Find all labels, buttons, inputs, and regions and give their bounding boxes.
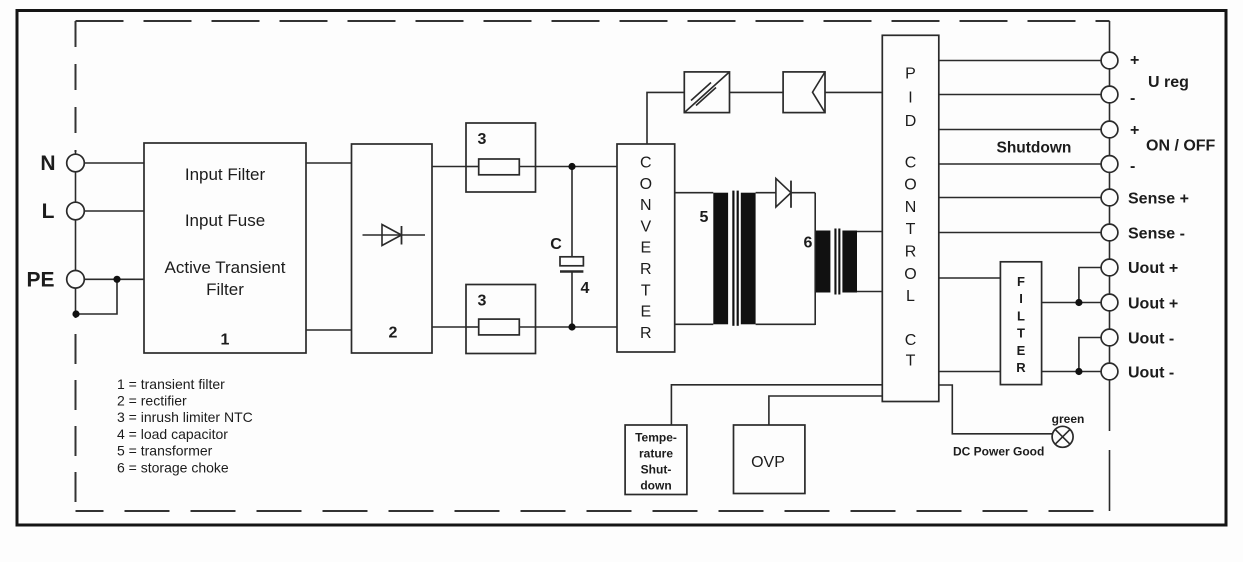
wire converter to transformer top xyxy=(675,192,714,194)
svg-text:6: 6 xyxy=(804,235,813,252)
svg-text:R: R xyxy=(1016,360,1026,375)
svg-text:C: C xyxy=(550,236,562,253)
wire secondary bottom to node line xyxy=(756,323,816,325)
wire PID to Ureg+ terminal xyxy=(939,60,1101,62)
svg-text:N: N xyxy=(40,152,55,175)
terminal PE xyxy=(67,271,85,289)
svg-text:Uout +: Uout + xyxy=(1128,260,1178,277)
OVP block xyxy=(734,425,805,494)
svg-text:Input Fuse: Input Fuse xyxy=(185,211,265,230)
PID control block xyxy=(882,35,939,401)
svg-text:O: O xyxy=(904,266,916,283)
storage choke 6 winding B xyxy=(842,231,857,293)
svg-text:-: - xyxy=(1130,158,1135,175)
svg-text:-: - xyxy=(1130,90,1135,107)
isolation coupler box xyxy=(684,72,729,113)
terminal N xyxy=(67,154,85,172)
wire diode to node line xyxy=(791,192,815,194)
wire PID to filter top xyxy=(939,277,1001,279)
terminal Uout+ lower xyxy=(1101,294,1118,311)
svg-text:N: N xyxy=(905,199,917,216)
wire input filter to rectifier bottom xyxy=(306,329,352,331)
svg-text:5: 5 xyxy=(700,209,709,226)
resistor bottom xyxy=(466,326,479,328)
dashed enclosure top xyxy=(76,20,1110,22)
svg-text:+: + xyxy=(1130,122,1139,139)
svg-text:3 = inrush limiter NTC: 3 = inrush limiter NTC xyxy=(117,409,253,425)
svg-text:OVP: OVP xyxy=(751,454,785,471)
svg-text:rature: rature xyxy=(639,447,673,461)
input filter block U1 xyxy=(144,143,306,353)
svg-text:L: L xyxy=(42,200,55,223)
wire temperature shutdown to PID xyxy=(671,385,882,425)
amplifier box xyxy=(783,72,825,113)
svg-text:Filter: Filter xyxy=(206,280,244,299)
svg-text:E: E xyxy=(640,240,651,257)
svg-text:O: O xyxy=(640,176,652,193)
svg-text:Sense -: Sense - xyxy=(1128,226,1185,243)
transformer core xyxy=(732,191,734,326)
wire junction up to Uout- top xyxy=(1079,338,1101,372)
PE loop wire xyxy=(76,279,118,314)
wire converter to transformer bottom xyxy=(675,323,714,325)
wire input filter to rectifier top xyxy=(306,162,352,164)
svg-text:6 = storage choke: 6 = storage choke xyxy=(117,459,229,475)
terminal Uout- upper xyxy=(1101,329,1118,346)
node line xyxy=(814,193,816,325)
terminal Uout- lower xyxy=(1101,363,1118,380)
svg-text:C: C xyxy=(905,332,917,349)
wire rectifier to NTC bottom xyxy=(432,326,466,328)
junction PE wire xyxy=(113,276,120,283)
wire filter to Uout+ junction xyxy=(1042,302,1102,304)
svg-text:T: T xyxy=(641,282,651,299)
wire coupler to amp xyxy=(730,91,784,93)
wire PID to filter bottom xyxy=(939,371,1001,373)
svg-text:C: C xyxy=(640,155,652,172)
svg-text:3: 3 xyxy=(478,293,487,310)
svg-text:2 = rectifier: 2 = rectifier xyxy=(117,393,187,409)
svg-text:I: I xyxy=(1019,291,1023,306)
svg-text:N: N xyxy=(640,197,652,214)
wire secondary to diode xyxy=(756,192,776,194)
dashed enclosure bottom xyxy=(76,510,1110,512)
transformer 5 primary winding xyxy=(713,193,728,325)
svg-text:4: 4 xyxy=(581,280,590,297)
svg-text:3: 3 xyxy=(478,131,487,148)
wire rectifier to NTC top xyxy=(432,166,466,168)
svg-text:E: E xyxy=(640,304,651,321)
wire junction up to Uout+ top xyxy=(1079,268,1101,303)
filter block xyxy=(1000,262,1041,385)
svg-text:2: 2 xyxy=(389,325,398,342)
transformer 5 secondary winding xyxy=(741,193,756,325)
wire NTC bottom to converter xyxy=(536,326,618,328)
NTC block 3 bottom xyxy=(466,285,536,354)
svg-text:E: E xyxy=(1017,343,1026,358)
terminal Ureg- xyxy=(1101,86,1118,103)
DC power good wire xyxy=(939,385,1052,434)
wire amp to PID xyxy=(825,91,882,93)
svg-text:L: L xyxy=(906,288,915,305)
junction PE rail xyxy=(72,310,79,317)
svg-text:1 = transient filter: 1 = transient filter xyxy=(117,376,225,392)
junction capacitor bottom xyxy=(568,323,575,330)
svg-text:I: I xyxy=(908,89,912,106)
wire PID to ON/OFF- terminal xyxy=(939,163,1101,165)
terminal Uout+ upper xyxy=(1101,259,1118,276)
storage choke 6 winding A xyxy=(816,231,831,293)
svg-text:Uout -: Uout - xyxy=(1128,331,1174,348)
svg-text:Uout -: Uout - xyxy=(1128,365,1174,382)
converter block xyxy=(617,144,675,352)
dashed enclosure left lower xyxy=(75,314,77,511)
junction capacitor top xyxy=(568,163,575,170)
rectifier block 2 xyxy=(352,144,433,353)
svg-text:PE: PE xyxy=(26,269,54,292)
svg-text:L: L xyxy=(1017,308,1025,323)
terminal Sense+ xyxy=(1101,189,1118,206)
terminal Ureg+ xyxy=(1101,52,1118,69)
svg-text:U reg: U reg xyxy=(1148,74,1189,91)
svg-text:4 = load capacitor: 4 = load capacitor xyxy=(117,426,228,442)
svg-text:V: V xyxy=(640,218,651,235)
output rail solid upper xyxy=(1109,21,1111,431)
junction Uout+ xyxy=(1075,299,1082,306)
output rail solid lower xyxy=(1109,450,1111,511)
choke core xyxy=(834,229,836,295)
wire PID to Sense+ terminal xyxy=(939,197,1101,199)
svg-text:O: O xyxy=(904,177,916,194)
svg-text:Uout +: Uout + xyxy=(1128,296,1178,313)
svg-text:Shutdown: Shutdown xyxy=(997,140,1072,157)
svg-text:+: + xyxy=(1130,52,1139,69)
load capacitor C4 xyxy=(571,167,573,257)
wire N to input filter xyxy=(84,162,144,164)
wire OVP to PID xyxy=(769,396,882,425)
wire choke to PID top xyxy=(857,231,882,233)
wire NTC top to converter xyxy=(536,166,618,168)
legend xyxy=(117,376,253,476)
svg-text:P: P xyxy=(905,65,916,82)
wire PE to input filter xyxy=(84,278,144,280)
svg-text:ON / OFF: ON / OFF xyxy=(1146,138,1216,155)
svg-text:R: R xyxy=(640,325,652,342)
svg-text:T: T xyxy=(1017,326,1025,341)
wire L to input filter xyxy=(84,210,144,212)
svg-text:D: D xyxy=(905,113,917,130)
svg-text:DC Power Good: DC Power Good xyxy=(953,445,1044,459)
svg-text:Shut-: Shut- xyxy=(641,463,672,477)
wire converter top feedback xyxy=(647,92,684,144)
temperature shutdown block xyxy=(625,425,687,495)
wire choke to PID bottom xyxy=(857,291,882,293)
svg-text:Input Filter: Input Filter xyxy=(185,165,266,184)
svg-text:T: T xyxy=(906,221,916,238)
svg-text:R: R xyxy=(640,261,652,278)
svg-text:Tempe-: Tempe- xyxy=(635,431,677,445)
dashed enclosure left upper xyxy=(75,21,77,152)
terminal ON/OFF+ xyxy=(1101,121,1118,138)
input rail solid xyxy=(75,150,77,314)
junction Uout- xyxy=(1075,368,1082,375)
svg-text:green: green xyxy=(1052,412,1085,426)
terminal L xyxy=(67,202,85,220)
svg-text:R: R xyxy=(905,244,917,261)
output diode xyxy=(776,179,791,208)
svg-text:C: C xyxy=(905,154,917,171)
svg-text:5 = transformer: 5 = transformer xyxy=(117,443,213,459)
svg-text:Sense +: Sense + xyxy=(1128,191,1189,208)
svg-text:F: F xyxy=(1017,274,1025,289)
wire PID to ON/OFF+ terminal xyxy=(939,129,1101,131)
svg-text:down: down xyxy=(640,479,671,493)
wire PID to Ureg- terminal xyxy=(939,94,1101,96)
diode symbol in rectifier xyxy=(363,234,426,236)
green lamp xyxy=(1052,426,1073,447)
terminal Sense- xyxy=(1101,224,1118,241)
terminal ON/OFF- xyxy=(1101,156,1118,173)
svg-text:Active Transient: Active Transient xyxy=(165,258,286,277)
wire filter to Uout- junction xyxy=(1042,371,1102,373)
NTC block 3 top xyxy=(466,123,536,192)
wire PID to Sense- terminal xyxy=(939,232,1101,234)
svg-text:1: 1 xyxy=(221,332,230,349)
svg-text:T: T xyxy=(906,353,916,370)
resistor top xyxy=(466,166,479,168)
